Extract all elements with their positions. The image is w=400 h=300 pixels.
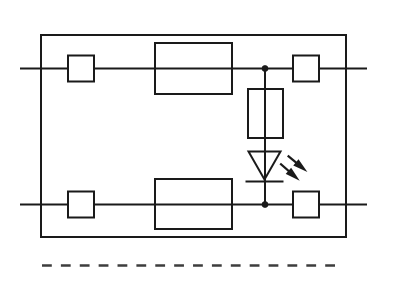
LED emission arrow 2 <box>280 164 300 181</box>
terminal block body outline <box>41 35 346 237</box>
LED emission arrow 1 <box>288 156 308 172</box>
fuse F1 <box>248 89 283 138</box>
component box on top conductor <box>155 43 232 94</box>
wire: top conductor L <box>20 68 367 70</box>
clamp terminal bottom-left <box>68 192 94 218</box>
component box on bottom conductor <box>155 179 232 229</box>
node: top junction <box>262 65 269 72</box>
clamp terminal top-left <box>68 56 94 82</box>
mounting rail dashed line <box>42 264 336 266</box>
clamp terminal bottom-right <box>293 192 319 218</box>
wire: vertical branch <box>264 69 266 205</box>
node: bottom junction <box>262 201 269 208</box>
LED D1 cathode bar <box>246 181 284 183</box>
clamp terminal top-right <box>293 56 319 82</box>
wire: bottom conductor N <box>20 204 367 206</box>
LED D1 triangle <box>249 152 281 180</box>
